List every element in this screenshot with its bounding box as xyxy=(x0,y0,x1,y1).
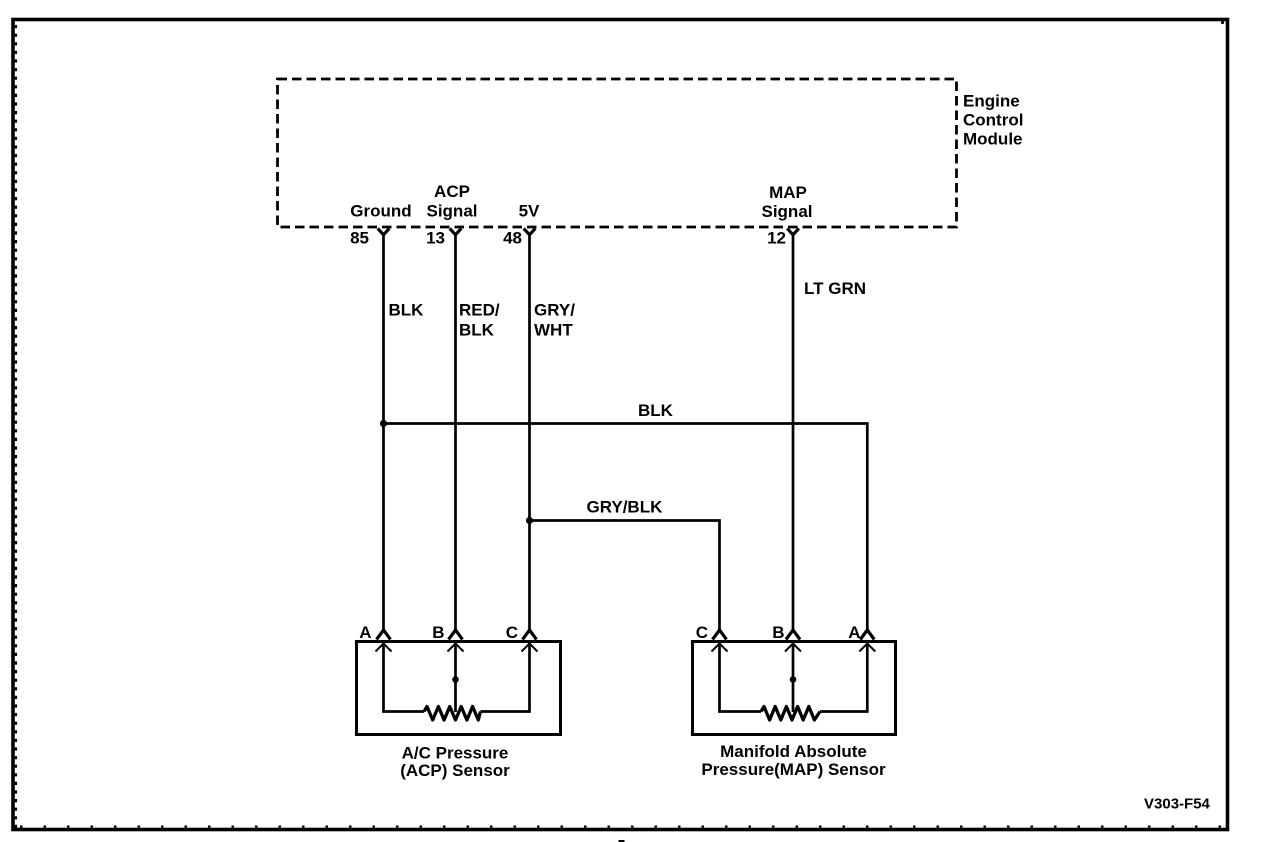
svg-text:BLK: BLK xyxy=(638,401,674,420)
svg-text:B: B xyxy=(432,623,444,642)
ACP pin B connector chevrons xyxy=(448,630,464,652)
wire LT GRN from ECM pin 12 down to MAP pin B xyxy=(792,234,795,631)
ACP sensor resistor element xyxy=(424,707,481,721)
MAP pin B connector chevrons xyxy=(785,630,801,652)
svg-text:Engine: Engine xyxy=(963,92,1020,111)
ACP pin C connector chevrons xyxy=(522,630,538,652)
MAP pin C connector chevrons xyxy=(712,630,728,652)
svg-text:B: B xyxy=(772,623,784,642)
ACP pin A connector chevrons xyxy=(376,630,392,652)
svg-text:Signal: Signal xyxy=(761,202,812,221)
ACP sensor caption "A/C Pressure (ACP) Sensor" xyxy=(400,744,510,781)
wire BLK horizontal from junction on pin-85 wire to MAP pin A xyxy=(384,424,868,631)
junction node on GRY/BLK wire xyxy=(526,517,533,524)
svg-text:(ACP) Sensor: (ACP) Sensor xyxy=(400,761,510,780)
svg-text:Ground: Ground xyxy=(350,202,411,221)
svg-text:LT GRN: LT GRN xyxy=(804,279,866,298)
svg-text:A: A xyxy=(848,623,860,642)
wire GRY/BLK horizontal from junction on pin-48 wire to MAP pin C xyxy=(530,521,720,631)
ECM pin 48 connector symbol xyxy=(524,228,536,234)
svg-text:V303-F54: V303-F54 xyxy=(1144,796,1211,813)
svg-text:Signal: Signal xyxy=(426,202,477,221)
svg-text:WHT: WHT xyxy=(534,321,573,340)
ACP sensor box xyxy=(357,642,561,735)
wire GRY/WHT from ECM pin 48 down to ACP pin C xyxy=(528,234,531,631)
svg-text:Pressure(MAP) Sensor: Pressure(MAP) Sensor xyxy=(701,760,886,779)
MAP internal wire pin C to resistor xyxy=(720,643,762,712)
junction node on BLK wire xyxy=(380,420,387,427)
pin label "MAP Signal" xyxy=(761,183,812,221)
ECM pin 12 connector symbol xyxy=(787,228,799,234)
svg-text:A/C Pressure: A/C Pressure xyxy=(402,744,509,763)
svg-text:48: 48 xyxy=(503,229,522,248)
pin label "ACP Signal" xyxy=(426,182,477,221)
MAP internal junction node on pin B wire xyxy=(790,676,797,683)
MAP internal wire pin B wiper tap xyxy=(792,643,795,712)
ACP internal junction node on pin B wire xyxy=(452,676,459,683)
ACP internal wire pin B wiper tap xyxy=(454,643,457,712)
svg-text:C: C xyxy=(696,623,708,642)
svg-text:85: 85 xyxy=(350,229,369,248)
wire label RED/BLK (pin 13 wire) xyxy=(459,301,500,340)
MAP pin A connector chevrons xyxy=(859,630,875,652)
svg-text:MAP: MAP xyxy=(769,183,807,202)
svg-text:BLK: BLK xyxy=(389,301,425,320)
MAP sensor resistor element xyxy=(761,707,820,721)
svg-text:C: C xyxy=(506,623,518,642)
wire label GRY/WHT (pin 48 wire) xyxy=(534,301,575,340)
wire RED/BLK from ECM pin 13 down to ACP pin B xyxy=(454,234,457,631)
svg-text:13: 13 xyxy=(426,229,445,248)
ACP internal wire pin C to resistor xyxy=(481,643,530,712)
svg-text:Manifold Absolute: Manifold Absolute xyxy=(720,742,867,761)
svg-text:RED/: RED/ xyxy=(459,301,500,320)
MAP internal wire pin A to resistor xyxy=(820,643,867,712)
ECM (Engine Control Module) dashed box xyxy=(278,79,957,227)
MAP sensor caption "Manifold Absolute Pressure(MAP) Sensor" xyxy=(701,742,886,779)
svg-text:A: A xyxy=(359,623,371,642)
ACP internal wire pin A to resistor xyxy=(384,643,425,712)
svg-text:BLK: BLK xyxy=(459,321,495,340)
svg-text:12: 12 xyxy=(767,229,786,248)
ECM name label "Engine Control Module" xyxy=(963,92,1023,149)
MAP sensor box xyxy=(693,642,896,735)
ECM pin 85 connector symbol xyxy=(378,228,390,234)
svg-text:ACP: ACP xyxy=(434,182,470,201)
svg-text:GRY/BLK: GRY/BLK xyxy=(587,498,664,517)
svg-text:Control: Control xyxy=(963,111,1023,130)
wire BLK from ECM pin 85 down to ACP pin A xyxy=(382,234,385,631)
ECM pin 13 connector symbol xyxy=(450,228,462,234)
svg-text:5V: 5V xyxy=(519,202,540,221)
svg-text:GRY/: GRY/ xyxy=(534,301,575,320)
svg-text:Module: Module xyxy=(963,130,1023,149)
